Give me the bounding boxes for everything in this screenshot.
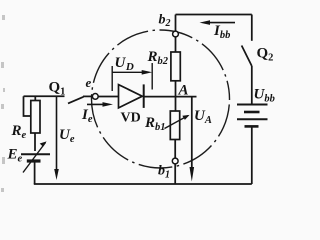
wire R_b2 to node A [175,81,177,97]
diode VD cathode bar [143,84,145,108]
wire U_bb to bottom rail [251,126,253,184]
wire b2 node up [175,15,177,32]
battery U_bb plate 3 long [237,118,268,120]
wire bottom rail [34,183,252,185]
variable arrow through R_b1 [165,116,189,129]
svg-text:A: A [178,83,189,99]
arrowheads [40,20,235,181]
voltage U_D arrowhead [142,70,153,75]
battery E_e short plate [27,159,41,162]
wire top-left horizontal (to Q1) [24,95,65,97]
R_b1 variable arrowhead [182,115,189,120]
voltage U_D right tick [151,63,153,90]
resistor R_b2 [171,52,180,81]
voltage U_e arrow (down) [56,97,58,169]
wire Q1 to node e [83,95,92,97]
battery U_bb plate 2 short [244,111,260,114]
wire node e to diode [98,96,118,98]
diode VD triangle [119,85,143,108]
node b1 [172,158,178,164]
voltage U_A arrowhead (down) [190,167,195,182]
resistor R_b1 [170,111,179,140]
voltage U_D arrow shaft [112,71,143,73]
battery E_e long plate [21,153,50,155]
wire top rail (b2 to right) [176,14,252,16]
UJT model boundary (dash-dot circle) [92,30,230,168]
E_e variable arrowhead [40,141,47,146]
wire b2 node to R_b2 [175,37,177,52]
svg-text:e: e [86,75,92,90]
node b2 [173,31,179,37]
battery U_bb plate 4 short [245,125,259,128]
switch Q2 blade [242,46,252,67]
wire R_e top lead [34,96,36,100]
current I_bb arrow (pointing left) [209,22,235,24]
wire left corner jog [24,96,32,116]
wire node A to R_b1 [175,96,177,111]
wire right side down to Q2 [251,15,253,41]
wire R_e to E_e [34,133,36,151]
battery U_bb plate 1 long [237,104,268,106]
wire diode to node A and corner [144,96,197,98]
voltage U_D left tick [111,66,113,91]
variable arrow through E_e [23,143,46,173]
svg-text:VD: VD [121,111,141,126]
wire R_b1 to node b1 [174,140,176,159]
wire node b1 to bottom rail [174,164,176,184]
wire U_A measuring line [191,97,193,168]
wire E_e to bottom [34,163,36,185]
current I_e arrow [87,104,104,106]
resistor R_e [31,101,40,134]
node e [92,94,98,100]
wire Q2 to U_bb [251,66,253,104]
switch Q1 blade [68,97,84,104]
